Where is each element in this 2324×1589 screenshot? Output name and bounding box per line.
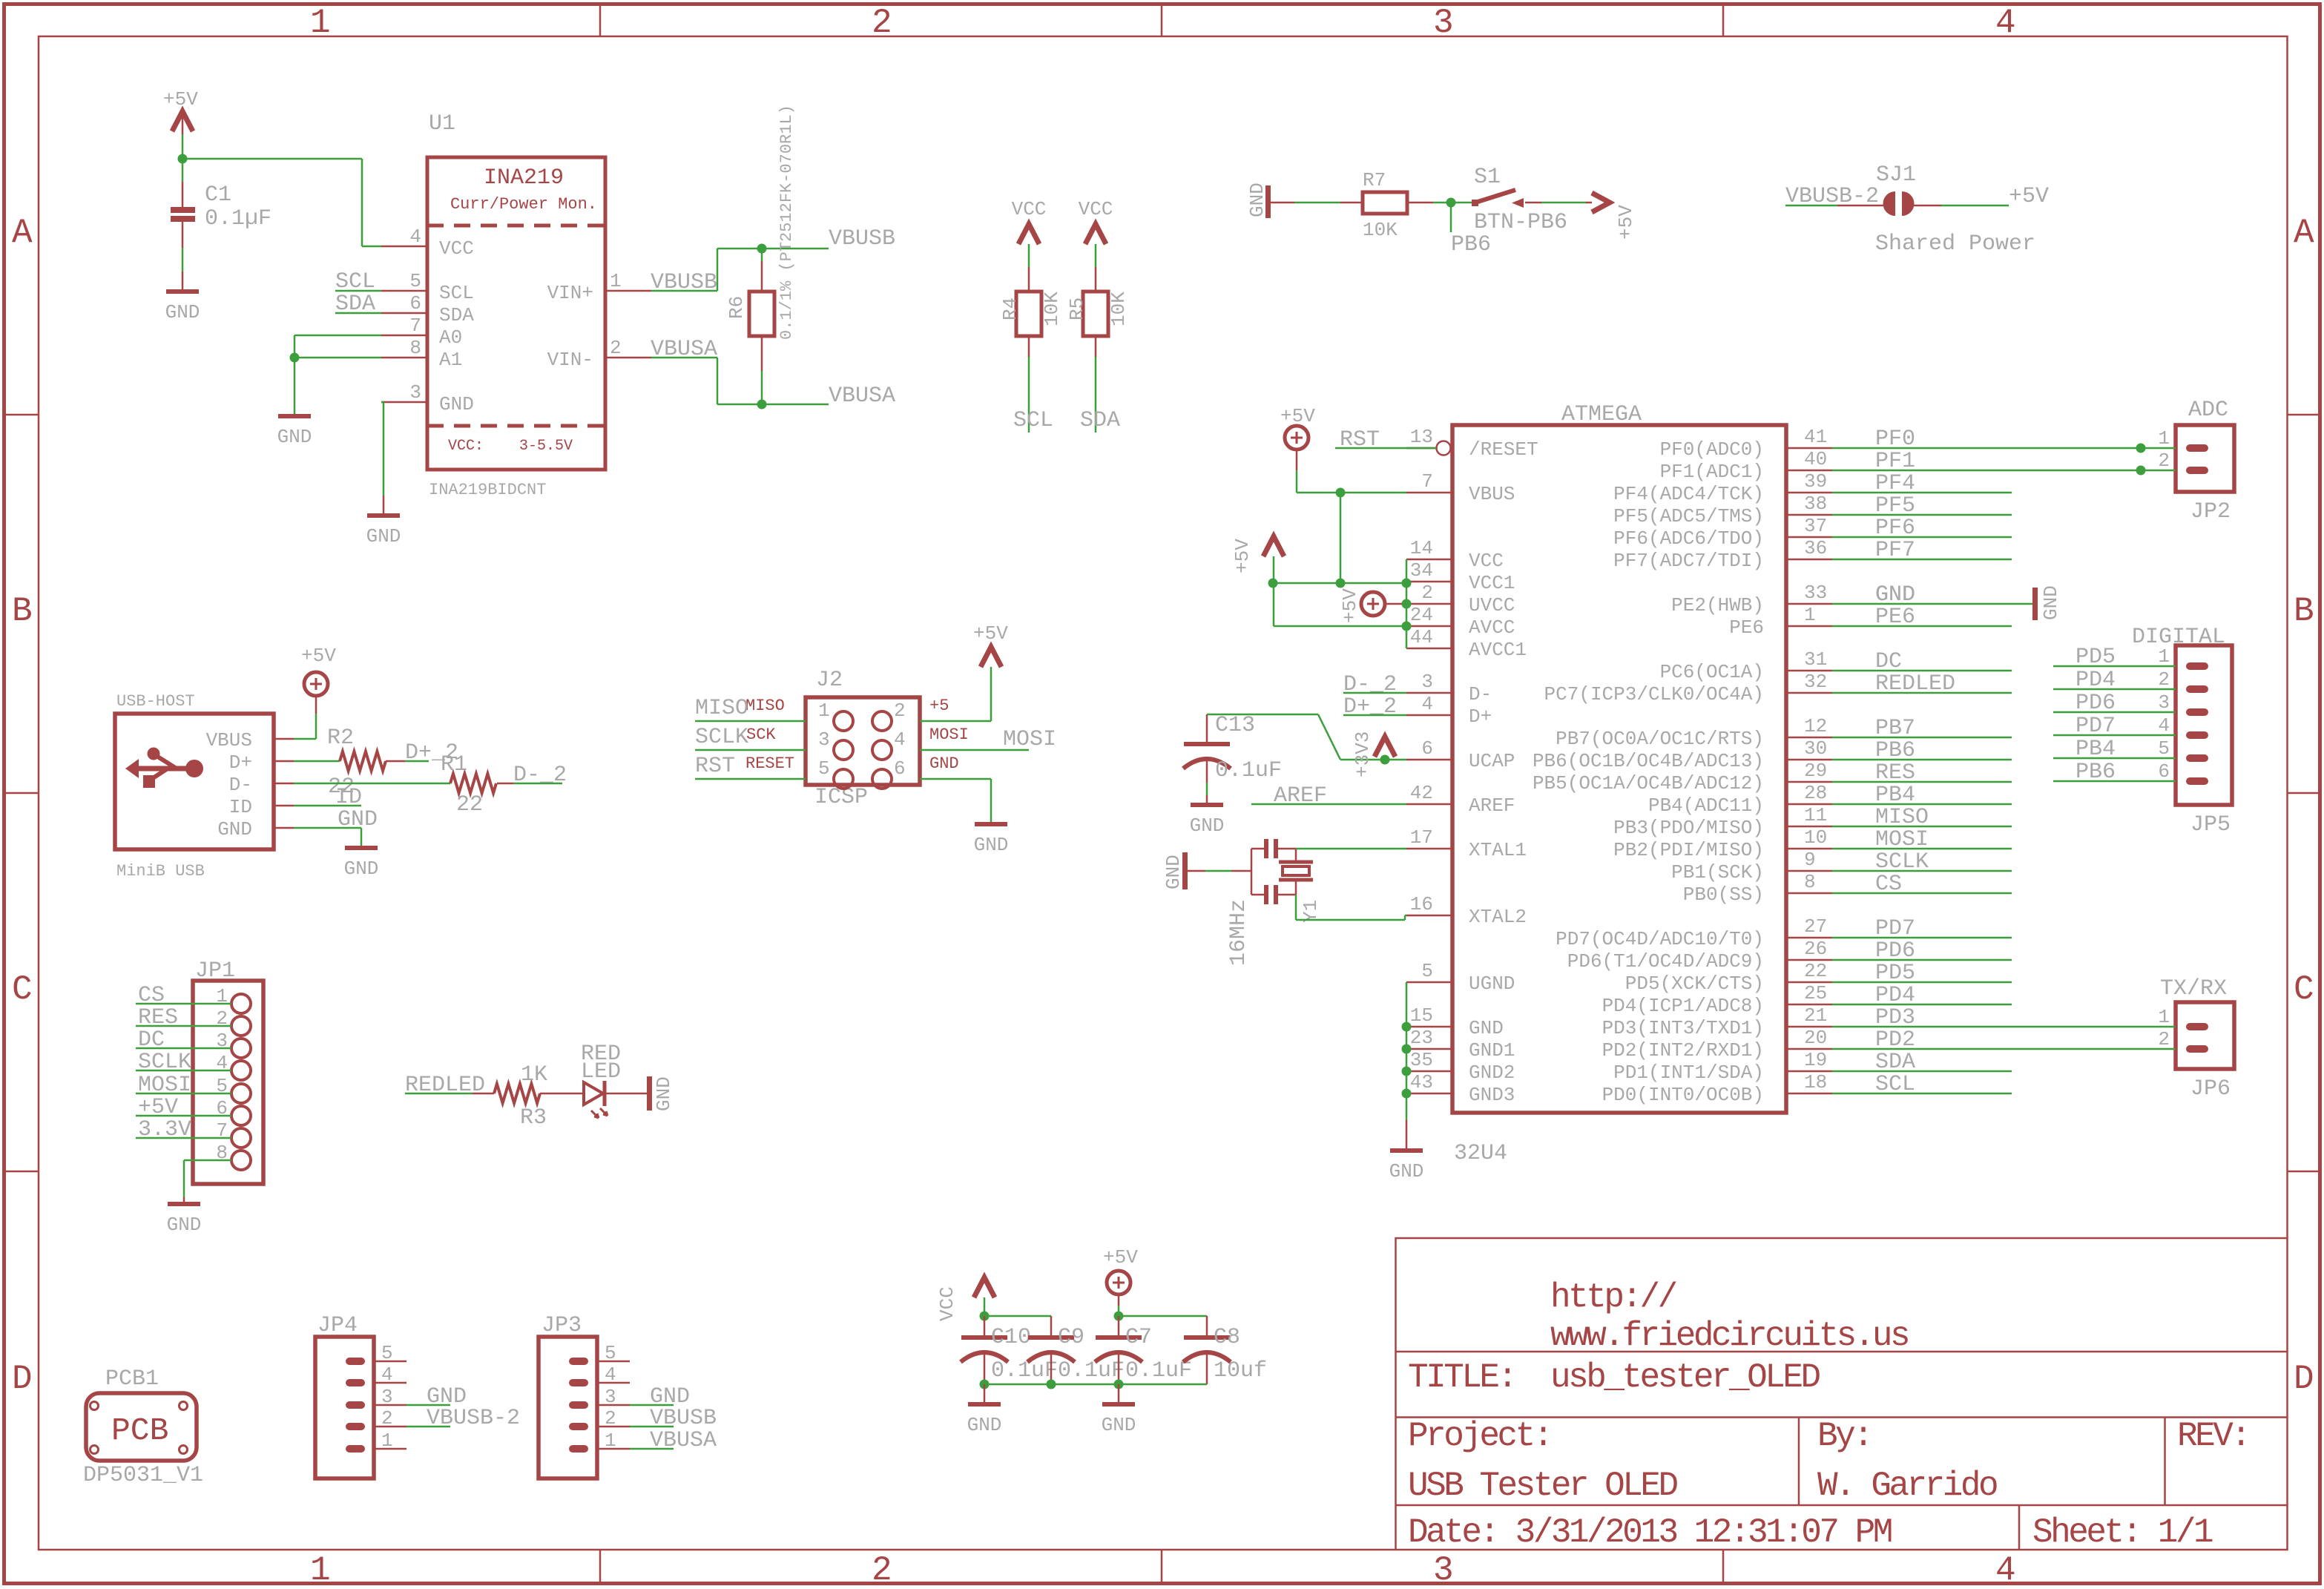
wire PD3 to JP6 (1832, 1026, 2176, 1028)
svg-text:16MHz: 16MHz (1226, 899, 1251, 966)
svg-text:W. Garrido: W. Garrido (1817, 1467, 1997, 1505)
svg-text:0.1uF: 0.1uF (1125, 1358, 1192, 1384)
wire S1 to +5V (1541, 202, 1586, 204)
svg-text:2: 2 (2158, 1028, 2170, 1050)
svg-text:R4: R4 (999, 297, 1021, 320)
wire R3 to LED (540, 1093, 584, 1095)
svg-text:JP6: JP6 (2190, 1076, 2231, 1102)
svg-text:PD6: PD6 (2076, 691, 2116, 716)
ground GND below ATMEGA (1390, 1148, 1423, 1153)
svg-text:VBUSA: VBUSA (829, 384, 895, 409)
resistor R6 (761, 249, 763, 261)
svg-text:44: 44 (1410, 626, 1433, 648)
svg-text:MiniB USB: MiniB USB (116, 862, 205, 881)
node junction VCC rail (1336, 579, 1346, 588)
svg-text:1: 1 (1804, 604, 1816, 626)
svg-text:PCB: PCB (111, 1412, 168, 1449)
svg-text:UVCC: UVCC (1469, 594, 1515, 616)
svg-text:SCL: SCL (439, 282, 474, 304)
svg-text:XTAL1: XTAL1 (1469, 839, 1527, 861)
svg-text:21: 21 (1804, 1004, 1827, 1027)
wire +5V to VBUS pin (1297, 492, 1406, 494)
svg-text:5: 5 (409, 270, 421, 292)
svg-text:24: 24 (1410, 604, 1433, 626)
resistor R4 (1028, 244, 1030, 267)
svg-text:R7: R7 (1363, 169, 1386, 191)
node junction R6 top (757, 244, 767, 254)
wire VIN+ to VBUSB net (651, 290, 717, 292)
wire JP4 GND (406, 1404, 450, 1407)
svg-text:ADC: ADC (2188, 398, 2228, 423)
svg-text:ID: ID (335, 785, 362, 810)
ground GND below A0/A1 (278, 414, 311, 418)
wire JP3 VBUSA (630, 1448, 674, 1450)
wire PB6 stub (1450, 203, 1452, 232)
wire D+_2 (1343, 714, 1406, 717)
svg-text:+5V: +5V (1231, 539, 1254, 573)
wire J2 GND (920, 778, 991, 780)
svg-text:GND: GND (1102, 1414, 1136, 1436)
svg-text:R5: R5 (1066, 297, 1088, 320)
svg-text:+5V: +5V (1280, 405, 1315, 427)
svg-text:JP2: JP2 (2190, 499, 2231, 524)
svg-text:MOSI: MOSI (929, 726, 969, 744)
svg-text:AVCC1: AVCC1 (1469, 639, 1527, 661)
wires JP5 nets (2053, 665, 2176, 668)
svg-text:VCC: VCC (439, 237, 474, 260)
svg-text:S1: S1 (1474, 165, 1501, 190)
node junction VBUS (1336, 488, 1346, 498)
JP1 net wires (136, 1003, 231, 1005)
wire +5V to C1 top (182, 159, 184, 182)
svg-text:MISO: MISO (695, 696, 748, 721)
svg-text:VBUS: VBUS (206, 729, 252, 751)
svg-text:GND3: GND3 (1469, 1084, 1515, 1106)
svg-text:5: 5 (818, 757, 830, 780)
svg-text:C7: C7 (1125, 1325, 1152, 1350)
svg-text:PD4(ICP1/ADC8): PD4(ICP1/ADC8) (1602, 995, 1764, 1017)
svg-text:3: 3 (1433, 1551, 1452, 1589)
svg-text:GND: GND (165, 301, 200, 323)
svg-text:10K: 10K (1363, 219, 1398, 241)
svg-text:31: 31 (1804, 648, 1827, 671)
svg-text:3: 3 (1433, 4, 1452, 42)
ground GND below C7 (1102, 1402, 1135, 1407)
wire REDLED to R3 (405, 1093, 473, 1095)
svg-text:10K: 10K (1107, 292, 1130, 326)
svg-text:PB7(OC0A/OC1C/RTS): PB7(OC0A/OC1C/RTS) (1556, 728, 1764, 750)
svg-text:9: 9 (1804, 849, 1816, 871)
crystal Y1 16MHz resonator (1251, 849, 1253, 895)
svg-text:41: 41 (1804, 426, 1827, 448)
U1 pin stubs right (605, 290, 651, 292)
wire JP4 VBUSB-2 (406, 1426, 450, 1428)
svg-text:12: 12 (1804, 715, 1827, 737)
svg-text:2: 2 (872, 4, 890, 42)
svg-text:33: 33 (1804, 582, 1827, 604)
svg-text:USB-HOST: USB-HOST (116, 692, 195, 711)
svg-text:0.1uF: 0.1uF (991, 1358, 1058, 1384)
svg-text:+5V: +5V (973, 622, 1008, 645)
svg-text:VIN+: VIN+ (547, 282, 593, 304)
svg-text:2: 2 (610, 337, 622, 359)
power +5V circle above USB (304, 672, 328, 696)
svg-text:MISO: MISO (1875, 805, 1929, 830)
svg-text:5: 5 (605, 1342, 616, 1364)
wire C13 to UCAP (1207, 714, 1318, 716)
svg-text:40: 40 (1804, 448, 1827, 470)
svg-text:PF6: PF6 (1875, 516, 1915, 541)
svg-text:PD7: PD7 (1875, 916, 1915, 941)
title block outline (1396, 1238, 2288, 1550)
svg-text:DC: DC (138, 1027, 165, 1053)
ground GND left of Y1 (1182, 852, 1188, 889)
wire R7 to S1 (1407, 202, 1433, 204)
svg-text:PD6: PD6 (1875, 938, 1915, 964)
resistor R3 (494, 1084, 540, 1103)
svg-text:TITLE:: TITLE: (1408, 1358, 1515, 1397)
svg-text:SCL: SCL (1013, 408, 1053, 433)
svg-text:+5V: +5V (1339, 588, 1361, 623)
wire PF0 to JP2 (1832, 447, 2176, 450)
ATMEGA reset bubble (1437, 441, 1451, 455)
svg-text:5: 5 (1421, 960, 1433, 982)
svg-text:C9: C9 (1058, 1325, 1084, 1350)
svg-text:/RESET: /RESET (1469, 438, 1538, 461)
svg-text:SDA: SDA (439, 304, 474, 326)
svg-text:LED: LED (581, 1059, 621, 1085)
svg-text:16: 16 (1410, 893, 1433, 915)
svg-text:PD4: PD4 (2076, 668, 2116, 693)
power VCC arrow at caps (974, 1277, 995, 1297)
wire JP1 pin8 to GND (184, 1159, 231, 1162)
svg-text:D: D (2294, 1360, 2313, 1398)
ground GND below C13 (1191, 803, 1223, 807)
svg-text:PF7: PF7 (1875, 538, 1915, 563)
svg-text:PB4: PB4 (2076, 737, 2116, 762)
wire ID (294, 805, 361, 807)
svg-text:VBUSB: VBUSB (829, 226, 895, 251)
svg-text:PD5: PD5 (1875, 961, 1915, 986)
wire +5V rail caps (1119, 1315, 1207, 1317)
frame row ticks (6, 414, 39, 416)
svg-text:INA219: INA219 (484, 165, 564, 191)
capacitor C13 (1206, 714, 1208, 742)
svg-text:0.1/1% (PT2512FK-070R1L): 0.1/1% (PT2512FK-070R1L) (777, 105, 796, 340)
svg-text:GND: GND (217, 818, 252, 840)
svg-text:6: 6 (1421, 737, 1433, 760)
USB-HOST pin stubs (274, 738, 294, 740)
svg-text:PE6: PE6 (1729, 616, 1764, 639)
wire D- to R1 (294, 783, 450, 785)
U1 pin stubs left (381, 246, 427, 248)
svg-text:UGND: UGND (1469, 973, 1515, 995)
svg-text:1: 1 (310, 1551, 329, 1589)
svg-text:DC: DC (1875, 649, 1902, 674)
svg-text:11: 11 (1804, 804, 1827, 826)
svg-text:GND: GND (1246, 182, 1268, 217)
svg-text:2: 2 (2158, 450, 2170, 472)
svg-text:D-_2: D-_2 (513, 763, 567, 788)
svg-text:15: 15 (1410, 1004, 1433, 1027)
svg-text:PE2(HWB): PE2(HWB) (1671, 594, 1764, 616)
svg-text:PB6: PB6 (1451, 232, 1491, 257)
wire JP3 VBUSB (630, 1426, 674, 1428)
svg-text:PD3(INT3/TXD1): PD3(INT3/TXD1) (1602, 1017, 1764, 1039)
svg-text:2: 2 (1421, 582, 1433, 604)
wire VCC rail (1273, 582, 1406, 585)
svg-text:+5V: +5V (1103, 1246, 1138, 1269)
power VCC above R5 (1085, 224, 1106, 244)
svg-text:UCAP: UCAP (1469, 750, 1515, 772)
wire SJ1 to +5V (1914, 205, 1941, 207)
svg-text:GND: GND (1389, 1160, 1424, 1182)
svg-text:R3: R3 (520, 1105, 547, 1131)
node junction +5V caps (1114, 1312, 1124, 1321)
svg-text:PD4: PD4 (1875, 983, 1915, 1008)
svg-text:GND: GND (967, 1414, 1002, 1436)
ATMEGA right pin stubs (1786, 447, 1832, 450)
svg-text:SDA: SDA (1080, 408, 1120, 433)
svg-text:A1: A1 (439, 349, 462, 371)
svg-text:43: 43 (1410, 1071, 1433, 1093)
svg-text:3.3V: 3.3V (138, 1117, 191, 1142)
wire SDA to U1 (335, 312, 381, 315)
ground GND below U1 (367, 513, 400, 518)
svg-text:JP4: JP4 (317, 1313, 358, 1338)
svg-text:C1: C1 (205, 182, 231, 208)
svg-text:INA219BIDCNT: INA219BIDCNT (429, 481, 546, 499)
wire SCL to U1 (335, 290, 381, 292)
power +5V circle at caps (1107, 1271, 1130, 1294)
svg-text:1: 1 (605, 1430, 616, 1452)
wire LED to GND (605, 1093, 647, 1095)
svg-text:PD1(INT1/SDA): PD1(INT1/SDA) (1613, 1062, 1764, 1084)
wire SCLK to J2 (695, 749, 806, 751)
svg-text:VIN-: VIN- (547, 349, 593, 371)
node junction R6 bottom (757, 400, 767, 409)
svg-text:MISO: MISO (745, 697, 785, 715)
wire MISO to J2 (695, 720, 806, 723)
svg-text:8: 8 (409, 337, 421, 359)
svg-text:GND: GND (1875, 582, 1915, 608)
svg-text:PF1(ADC1): PF1(ADC1) (1660, 461, 1764, 483)
svg-text:1: 1 (818, 700, 830, 722)
svg-text:0.1uF: 0.1uF (1058, 1358, 1125, 1384)
svg-text:PC7(ICP3/CLK0/OC4A): PC7(ICP3/CLK0/OC4A) (1544, 683, 1764, 705)
svg-text:PF5: PF5 (1875, 493, 1915, 519)
svg-text:Curr/Power Mon.: Curr/Power Mon. (450, 195, 597, 214)
svg-text:+5: +5 (929, 697, 949, 715)
node junction UCAP (1380, 755, 1390, 765)
svg-text:A: A (2294, 214, 2314, 252)
svg-text:GND: GND (167, 1214, 202, 1236)
wire U1 GND pin to ground (381, 401, 384, 404)
svg-text:RST: RST (695, 754, 735, 779)
svg-text:PB6: PB6 (1875, 738, 1915, 763)
svg-text:4: 4 (605, 1363, 616, 1386)
ground GND right of PE2 (2032, 588, 2038, 620)
svg-text:2: 2 (605, 1407, 616, 1430)
svg-text:VCC: VCC (1079, 198, 1113, 220)
svg-text:1: 1 (2158, 645, 2170, 668)
svg-text:1: 1 (610, 270, 622, 292)
wire J2 MOSI (920, 749, 1029, 751)
power VCC above R4 (1018, 224, 1039, 244)
capacitor C1 (171, 207, 195, 213)
svg-text:PB6(OC1B/OC4B/ADC13): PB6(OC1B/OC4B/ADC13) (1533, 750, 1764, 772)
capacitor C9 (1050, 1316, 1053, 1335)
wire RST to /RESET (1335, 447, 1436, 450)
svg-text:7: 7 (409, 315, 421, 337)
resistor R2 (340, 751, 386, 771)
svg-text:GND: GND (1190, 815, 1225, 837)
svg-text:D: D (12, 1360, 31, 1398)
svg-text:PD2(INT2/RXD1): PD2(INT2/RXD1) (1602, 1039, 1764, 1062)
svg-text:6: 6 (894, 757, 906, 780)
wire AREF (1251, 803, 1406, 806)
svg-text:PE6: PE6 (1875, 605, 1915, 630)
svg-text:1: 1 (2158, 427, 2170, 450)
svg-text:42: 42 (1410, 782, 1433, 804)
svg-text:2: 2 (872, 1551, 890, 1589)
svg-text:23: 23 (1410, 1027, 1433, 1049)
node junction VCC caps (980, 1312, 990, 1321)
svg-text:1: 1 (381, 1430, 393, 1452)
svg-text:BTN-PB6: BTN-PB6 (1474, 210, 1567, 235)
ground GND below J2 (975, 822, 1007, 826)
svg-text:U1: U1 (429, 111, 455, 136)
ic ATMEGA 32U4 box (1452, 425, 1786, 1113)
svg-text:USB Tester OLED: USB Tester OLED (1408, 1467, 1677, 1505)
svg-text:JP3: JP3 (542, 1313, 582, 1338)
svg-text:SCK: SCK (746, 726, 776, 744)
power +3V3 arrow (1375, 737, 1395, 757)
svg-text:3: 3 (818, 728, 830, 751)
svg-text:5: 5 (2158, 737, 2170, 760)
wire C7 to GND (1118, 1384, 1120, 1402)
svg-text:CS: CS (138, 983, 165, 1008)
svg-text:10K: 10K (1041, 292, 1063, 326)
wire ATMEGA VCC bus vertical (1406, 559, 1408, 648)
wire VCC rail caps (984, 1315, 1051, 1317)
svg-text:GND: GND (338, 807, 378, 832)
svg-text:VBUSB: VBUSB (650, 1406, 717, 1431)
ground GND below C10 (968, 1402, 1001, 1407)
svg-text:D+: D+ (1469, 705, 1492, 728)
svg-text:PCB1: PCB1 (105, 1366, 159, 1392)
svg-text:PF5(ADC5/TMS): PF5(ADC5/TMS) (1613, 505, 1764, 527)
svg-text:28: 28 (1804, 782, 1827, 804)
svg-text:20: 20 (1804, 1027, 1827, 1049)
svg-text:DP5031_V1: DP5031_V1 (83, 1463, 203, 1488)
svg-text:AVCC: AVCC (1469, 616, 1515, 639)
svg-text:JP5: JP5 (2190, 812, 2231, 838)
svg-text:3: 3 (605, 1386, 616, 1408)
svg-text:4: 4 (894, 728, 906, 751)
ground GND left of R7 (1265, 185, 1271, 218)
wire VIN- to VBUSA net (651, 357, 717, 359)
svg-text:+5V: +5V (1615, 205, 1637, 240)
svg-text:CS: CS (1875, 872, 1902, 897)
svg-text:22: 22 (456, 792, 483, 817)
svg-text:PB3(PDO/MISO): PB3(PDO/MISO) (1613, 817, 1764, 839)
svg-text:13: 13 (1410, 426, 1433, 448)
capacitor C7 (1118, 1316, 1120, 1335)
svg-text:PD5: PD5 (2076, 645, 2116, 670)
svg-text:4: 4 (1421, 693, 1433, 715)
svg-text:MOSI: MOSI (138, 1073, 191, 1098)
svg-text:PB4(ADC11): PB4(ADC11) (1648, 794, 1764, 817)
svg-text:34: 34 (1410, 559, 1433, 582)
node junction A1 (290, 353, 300, 363)
svg-text:GND2: GND2 (1469, 1062, 1515, 1084)
svg-text:19: 19 (1804, 1049, 1827, 1071)
svg-text:0.1uF: 0.1uF (1215, 758, 1282, 783)
svg-text:3: 3 (381, 1386, 393, 1408)
switch S1 (1451, 202, 1473, 204)
svg-text:PF0(ADC0): PF0(ADC0) (1660, 438, 1764, 461)
wire JP3 GND (630, 1404, 674, 1407)
svg-text:By:: By: (1817, 1417, 1871, 1455)
svg-text:R1: R1 (441, 752, 467, 777)
node junction AVCC (1402, 622, 1412, 631)
svg-text:RESET: RESET (745, 754, 794, 773)
svg-text:GND: GND (366, 525, 401, 547)
svg-text:VCC: VCC (1012, 198, 1047, 220)
ground GND below JP1 (168, 1202, 200, 1206)
ATMEGA left pin stubs (1406, 447, 1436, 450)
svg-text:PF7(ADC7/TDI): PF7(ADC7/TDI) (1613, 550, 1764, 572)
svg-text:VBUSB: VBUSB (651, 270, 717, 295)
wire PF1 to JP2 (1832, 470, 2176, 472)
svg-text:25: 25 (1804, 982, 1827, 1004)
svg-text:4: 4 (2158, 714, 2170, 737)
svg-text:37: 37 (1804, 515, 1827, 537)
svg-text:R2: R2 (327, 726, 354, 751)
svg-text:VBUS: VBUS (1469, 483, 1515, 505)
power +5V circle at UVCC (1361, 592, 1385, 616)
wire J2 +5 to +5V (920, 720, 991, 723)
svg-text:39: 39 (1804, 470, 1827, 493)
svg-text:PB7: PB7 (1875, 716, 1915, 741)
resistor R1 (450, 774, 496, 793)
svg-text:17: 17 (1410, 826, 1433, 849)
wire VCC to AVCC rail (1273, 583, 1275, 626)
wire VBUSB-2 to SJ1 (1785, 205, 1837, 207)
svg-text:MOSI: MOSI (1003, 727, 1056, 752)
svg-text:6: 6 (2158, 760, 2170, 783)
svg-text:GND: GND (929, 754, 959, 773)
svg-text:MOSI: MOSI (1875, 827, 1929, 852)
ground GND below C1 (166, 289, 199, 294)
svg-text:+5V: +5V (163, 88, 198, 111)
usb icon (125, 759, 139, 778)
wire +5V to C1 and U1 (182, 134, 184, 159)
svg-text:VBUSA: VBUSA (651, 337, 717, 362)
node junction PB6 (1446, 198, 1456, 208)
svg-text:+3V3: +3V3 (1352, 731, 1374, 777)
resistor R5 (1095, 244, 1097, 267)
svg-text:PF4(ADC4/TCK): PF4(ADC4/TCK) (1613, 483, 1764, 505)
svg-text:PF4: PF4 (1875, 471, 1915, 496)
wire R2 to D+_2 (386, 760, 405, 763)
svg-text:PD7: PD7 (2076, 714, 2116, 739)
svg-text:27: 27 (1804, 915, 1827, 938)
svg-text:PD5(XCK/CTS): PD5(XCK/CTS) (1625, 973, 1764, 995)
svg-text:SCLK: SCLK (138, 1050, 191, 1075)
svg-text:5: 5 (381, 1342, 393, 1364)
